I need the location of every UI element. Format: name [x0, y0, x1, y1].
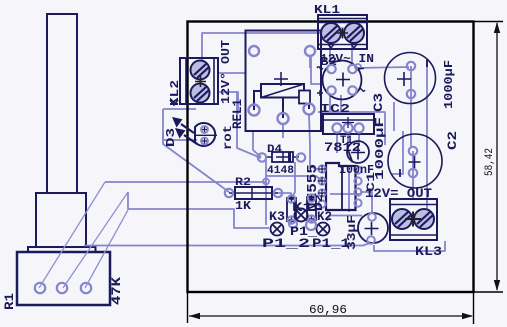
trace IC2 pads down — [337, 134, 359, 153]
svg-text:K3: K3 — [269, 209, 285, 224]
B2 polarity marks — [317, 67, 365, 96]
trace left to 33u — [327, 216, 362, 222]
svg-text:K1: K1 — [292, 200, 313, 215]
trace pad pair left of B2 — [311, 55, 322, 84]
trace above IC2 — [318, 112, 385, 145]
svg-text:58,42: 58,42 — [484, 148, 496, 176]
jumper pad K3 — [271, 223, 284, 236]
svg-text:47K: 47K — [109, 277, 124, 305]
extension line top right — [474, 21, 504, 23]
pad left of P1 — [289, 220, 297, 228]
relay aux rectangle — [299, 91, 310, 104]
potentiometer R1 — [17, 14, 110, 305]
trace B2 to C3 — [356, 67, 409, 68]
pot pin 2 — [57, 283, 67, 293]
svg-text:K2: K2 — [317, 209, 332, 224]
KL3 screw 1 — [392, 209, 412, 229]
svg-text:D3: D3 — [164, 128, 178, 147]
KL1 plus mark — [337, 28, 348, 39]
trimmer pad crosses — [289, 196, 314, 223]
trace relay right pad down to 555 — [309, 56, 319, 170]
trace R2 right to trimmer — [278, 193, 291, 199]
trace under 12V= — [330, 193, 360, 195]
relay leads — [254, 91, 309, 118]
trace relay mid pad stub — [282, 123, 284, 138]
extension line bottom left — [187, 292, 189, 323]
KL2 screw 2 — [191, 84, 210, 103]
KL2 screw 1 — [191, 61, 210, 80]
trace relay left pad to D4 — [253, 131, 261, 157]
dimension 60,96 — [189, 313, 473, 319]
svg-text:D4: D4 — [267, 144, 282, 156]
trace to 555 pad2 — [266, 176, 322, 181]
pad near P1 — [306, 220, 316, 230]
svg-text:P1_2: P1_2 — [262, 236, 310, 251]
pot shaft — [47, 14, 77, 193]
resistor R2 — [225, 187, 282, 199]
trace D4 right down — [292, 162, 295, 197]
diode D4 — [258, 152, 305, 162]
capacitor 33uF — [358, 213, 388, 244]
svg-text:C3: C3 — [371, 93, 386, 112]
regulator IC2 7812 — [323, 114, 374, 134]
extension line bottom right — [474, 291, 504, 293]
terminal KL2 — [170, 58, 218, 105]
pot flange — [28, 247, 96, 252]
svg-text:T1: T1 — [340, 135, 353, 147]
jumper pad mid — [295, 209, 308, 222]
trace KL2 to D4 — [237, 92, 261, 158]
B2 centre cross — [336, 73, 350, 87]
transistor T1 — [347, 141, 369, 163]
svg-text:KL2: KL2 — [168, 80, 182, 106]
B2 pads — [327, 65, 356, 95]
IC 555 — [318, 163, 362, 210]
trace B2 bottom to IC2 — [340, 95, 342, 113]
trace KL1 right screw down — [351, 40, 353, 66]
board traces (violet) — [237, 40, 445, 251]
terminal KL1 — [318, 15, 367, 49]
wire B — [128, 192, 269, 228]
svg-text:IC2: IC2 — [320, 102, 350, 116]
trace 33u bottom around KL3 — [374, 241, 445, 251]
svg-text:REL1: REL1 — [230, 99, 245, 129]
dimension 58,42 — [494, 22, 500, 291]
capacitor C2 — [388, 134, 442, 188]
KL1 screw 2 — [344, 23, 364, 43]
KL1 clamp marks — [328, 44, 357, 48]
trimmer block right (P1_1) — [307, 194, 316, 223]
terminal KL3 — [390, 199, 437, 240]
board outline — [188, 22, 504, 325]
wire KL2 screw2 right — [218, 92, 238, 114]
svg-text:1K: 1K — [235, 199, 252, 213]
trace long vertical to KL3 right — [425, 62, 427, 215]
wire KL1 to KL2 — [202, 33, 320, 68]
KL1 screw 1 — [321, 23, 341, 43]
pot pin 3 — [81, 283, 91, 293]
wire pot pin1 to board — [39, 182, 128, 288]
relay plus mark — [274, 72, 288, 86]
KL3 screw 2 — [414, 209, 434, 229]
relay coil — [261, 84, 304, 98]
svg-text:1000µF: 1000µF — [442, 60, 456, 109]
pot pin 1 — [35, 283, 45, 293]
trace C3 C2 vertical — [392, 66, 413, 199]
relay REL1 — [246, 31, 322, 132]
D3 arrows — [172, 117, 197, 144]
wire C — [84, 243, 370, 246]
svg-text:KL3: KL3 — [415, 244, 442, 259]
wire A horizontal — [84, 33, 370, 246]
jumper pad K2 — [317, 223, 330, 236]
capacitor C3 — [385, 53, 436, 104]
wire D3 lower stub — [163, 133, 197, 140]
pot body — [17, 252, 110, 305]
svg-text:1000µF: 1000µF — [373, 117, 387, 180]
LED D3 — [172, 117, 217, 146]
555 left pads — [318, 165, 361, 207]
KL3 plus mark — [405, 212, 421, 227]
svg-text:C2: C2 — [445, 131, 460, 150]
wire D3 to R2 diagonal — [163, 109, 229, 192]
trimmer block left (P1_2) — [287, 195, 296, 224]
trace junction vertical at x266 — [265, 160, 267, 225]
trace KL1 left screw down to B2 — [329, 40, 331, 66]
KL2 plus mark — [195, 76, 206, 87]
svg-text:R2: R2 — [235, 177, 251, 189]
trace 555 inner vertical — [348, 166, 350, 212]
trace 555 right to C1/33u — [360, 192, 372, 214]
bridge B2 — [317, 61, 365, 100]
KL2 clamp mark — [170, 100, 178, 105]
pot bushing — [36, 193, 86, 247]
wire KL2 screw1 to relay — [218, 72, 246, 74]
svg-text:60,96: 60,96 — [309, 304, 347, 317]
relay pads — [249, 46, 316, 124]
svg-text:4148: 4148 — [267, 165, 294, 177]
svg-text:12V° OUT: 12V° OUT — [219, 40, 233, 104]
svg-text:R1: R1 — [2, 293, 17, 310]
svg-text:KL1: KL1 — [314, 3, 340, 17]
svg-text:33µF: 33µF — [345, 215, 359, 250]
extension line bottom right corner — [473, 292, 475, 324]
